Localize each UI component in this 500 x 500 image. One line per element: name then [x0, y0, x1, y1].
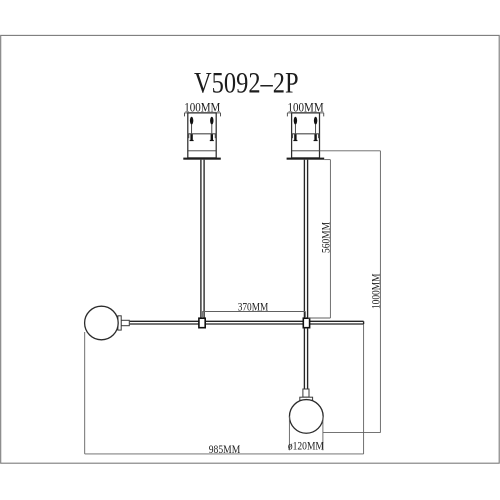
label diameter 120MM	[288, 440, 324, 452]
junction box right	[303, 318, 309, 328]
canopy left screw 1	[190, 117, 194, 141]
dimension line 370MM	[202, 312, 305, 318]
label 560MM	[318, 222, 332, 253]
dimension line 100MM left	[184, 113, 220, 117]
dimension line 985MM	[85, 324, 364, 454]
canopy right inner line	[292, 150, 320, 152]
canopy left box	[188, 113, 216, 158]
dimension line 100MM right	[287, 113, 324, 117]
horizontal bar	[130, 321, 364, 324]
bottom lamp socket tube	[303, 389, 309, 397]
label 1000MM	[368, 273, 382, 309]
right down rod upper	[304, 160, 307, 319]
left lamp globe	[85, 306, 119, 340]
canopy right screw 2	[314, 117, 318, 141]
bottom lamp globe	[289, 400, 323, 434]
canopy left mounting bracket	[188, 134, 216, 138]
left down rod	[201, 160, 204, 319]
canopy left screw 2	[210, 117, 214, 141]
canopy right ceiling plate	[287, 158, 325, 160]
left lamp socket neck	[121, 320, 129, 325]
canopy right box	[292, 113, 320, 158]
canopy right screw 1	[293, 117, 297, 141]
dimension line 1000MM	[320, 151, 381, 433]
label 100MM right	[288, 101, 324, 115]
svg-text:V5092–2P: V5092–2P	[194, 68, 299, 100]
label 370MM	[238, 300, 269, 314]
svg-text:ø120MM: ø120MM	[288, 440, 324, 452]
extension lines diameter 120MM	[289, 416, 323, 450]
svg-text:560MM: 560MM	[318, 222, 332, 253]
canopy right mounting bracket	[292, 134, 320, 138]
dimension line 560MM	[308, 160, 331, 318]
svg-text:985MM: 985MM	[209, 442, 241, 456]
bottom lamp socket flange	[300, 397, 313, 400]
left lamp socket flange	[118, 316, 121, 330]
svg-text:1000MM: 1000MM	[368, 273, 382, 309]
label 100MM left	[184, 101, 220, 115]
junction box left	[199, 318, 205, 328]
canopy left ceiling plate	[183, 158, 221, 160]
canopy left inner line	[188, 150, 216, 152]
title V5092-2P	[194, 68, 299, 100]
right down rod lower	[304, 328, 307, 389]
label 985MM	[209, 442, 241, 456]
